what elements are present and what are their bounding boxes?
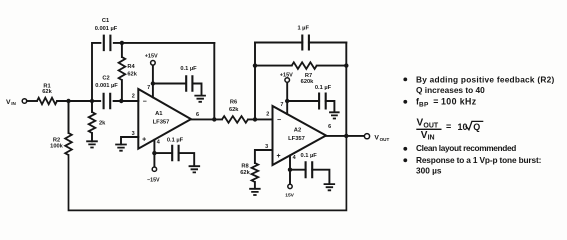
wire R6 to A2 pin2 (248, 118, 273, 120)
svg-text:0.1 µF: 0.1 µF (180, 66, 197, 72)
op-amp A2 LF357 (273, 106, 327, 165)
resistor R8 62k (252, 163, 259, 182)
svg-text:IN: IN (428, 134, 435, 141)
ground A1 bottom bypass (189, 166, 201, 172)
svg-text:62k: 62k (229, 107, 239, 113)
ground below 2k (86, 141, 98, 147)
svg-text:2: 2 (132, 94, 135, 100)
-15V supply A1 (152, 167, 156, 171)
ground below R8 (249, 189, 260, 195)
wire A2 output (326, 135, 364, 137)
bypass cap 0.1uF A1 top (153, 83, 186, 85)
wire C1 branch up from node A (92, 43, 100, 101)
svg-text:Response to a 1 Vp-p tone burs: Response to a 1 Vp-p tone burst: (416, 155, 541, 165)
wire R1 to node A (57, 100, 92, 102)
svg-text:−15V: −15V (147, 177, 160, 183)
svg-text:300 µs: 300 µs (416, 166, 442, 176)
+15V supply A2 (285, 78, 290, 83)
wire feedback down to A1 output (213, 43, 215, 120)
op-amp A1 LF357 (138, 89, 191, 149)
A2 pin 3 wire (255, 150, 273, 163)
svg-text:7: 7 (280, 102, 283, 108)
svg-text:7: 7 (147, 85, 150, 91)
input terminal VIN (22, 99, 27, 104)
resistor R4 62k (121, 43, 123, 57)
pin 4 stub (153, 140, 155, 167)
bullet note 2 fBP (403, 100, 407, 104)
bypass cap 0.1uF A2 top (287, 100, 319, 102)
svg-text:+15V: +15V (145, 54, 158, 60)
svg-text:0.1 µF: 0.1 µF (300, 153, 317, 159)
svg-text:−: − (277, 117, 281, 124)
svg-text:LF357: LF357 (288, 136, 305, 142)
node A (90, 99, 94, 103)
svg-text:620k: 620k (301, 79, 314, 85)
capacitor 1uF feedback (255, 42, 302, 44)
A2 pin 4 stub (289, 156, 291, 185)
ground A1 top bypass (194, 96, 206, 102)
junction R7 right (344, 63, 348, 67)
pin 7 stub (152, 65, 154, 97)
wire A2 feedback left riser (254, 43, 256, 120)
resistor 2k to ground (89, 112, 96, 133)
svg-text:R4: R4 (127, 64, 135, 70)
svg-text:C2: C2 (102, 75, 109, 81)
svg-text:OUT: OUT (423, 122, 439, 129)
svg-text:−: − (143, 99, 147, 106)
svg-text:62k: 62k (240, 170, 250, 176)
resistor R2 100k (68, 101, 70, 133)
svg-text:6: 6 (196, 112, 199, 118)
svg-text:By adding positive feedback (R: By adding positive feedback (R2) (416, 74, 554, 84)
svg-text:BP: BP (419, 102, 429, 109)
svg-text:A2: A2 (294, 128, 301, 134)
svg-text:=: = (446, 121, 451, 131)
svg-text:=: = (433, 97, 438, 107)
svg-text:+15V: +15V (280, 72, 293, 78)
svg-text:1 µF: 1 µF (297, 26, 309, 32)
resistor R6 62k (222, 116, 248, 123)
positive feedback rail (69, 136, 347, 211)
svg-text:6: 6 (328, 124, 331, 130)
svg-text:100 kHz: 100 kHz (441, 97, 477, 107)
svg-text:C1: C1 (102, 18, 109, 24)
svg-text:0.001 µF: 0.001 µF (95, 26, 118, 32)
svg-text:+: + (277, 153, 281, 160)
svg-text:62k: 62k (42, 89, 52, 95)
junction C1-R4 (120, 41, 124, 45)
svg-text:+: + (142, 137, 146, 144)
svg-text:A1: A1 (155, 111, 163, 117)
wire A1 output (191, 118, 222, 120)
output terminal VOUT (364, 134, 369, 139)
ground at A1 pin3 (115, 145, 127, 151)
wire VIN to R1 (27, 100, 37, 102)
pin 3 wire to ground (121, 137, 138, 144)
svg-text:Q: Q (473, 122, 480, 132)
svg-text:0.001 µF: 0.001 µF (95, 83, 118, 89)
node junction R2 tap (66, 99, 70, 103)
svg-text:3: 3 (132, 131, 135, 137)
svg-text:R6: R6 (230, 100, 237, 106)
svg-text:OUT: OUT (380, 137, 390, 142)
svg-text:0.1 µF: 0.1 µF (315, 85, 332, 91)
svg-text:2: 2 (266, 112, 269, 118)
-15V supply A2 (288, 184, 292, 188)
svg-text:IN: IN (11, 101, 16, 106)
capacitor C2 0.001uF (92, 100, 100, 102)
+15V supply A1 (151, 61, 156, 66)
ground A2 bottom bypass (324, 184, 336, 190)
wire A2 feedback right riser (345, 43, 347, 136)
capacitor C1 0.001uF (104, 35, 111, 52)
bullet note 3 (403, 147, 407, 151)
svg-text:62k: 62k (127, 71, 137, 77)
node B at pin2 (119, 99, 123, 103)
svg-text:0.1 µF: 0.1 µF (167, 138, 184, 144)
bypass cap 0.1uF A1 bottom (154, 152, 172, 154)
svg-text:Q increases to 40: Q increases to 40 (416, 85, 485, 95)
resistor R1 62k (37, 98, 57, 105)
A2 pin 7 stub (286, 82, 288, 114)
svg-text:100k: 100k (50, 143, 63, 149)
svg-text:2k: 2k (99, 121, 106, 127)
bullet note 4 (403, 158, 407, 162)
svg-text:R8: R8 (241, 163, 248, 169)
svg-text:LF357: LF357 (153, 120, 170, 126)
resistor R7 620k (255, 65, 292, 67)
bypass cap 0.1uF A2 bottom (290, 169, 306, 171)
svg-text:Clean layout recommended: Clean layout recommended (416, 143, 516, 153)
svg-text:15V: 15V (285, 192, 294, 198)
bullet note 1 (403, 78, 407, 82)
ground A2 top bypass (329, 112, 340, 118)
